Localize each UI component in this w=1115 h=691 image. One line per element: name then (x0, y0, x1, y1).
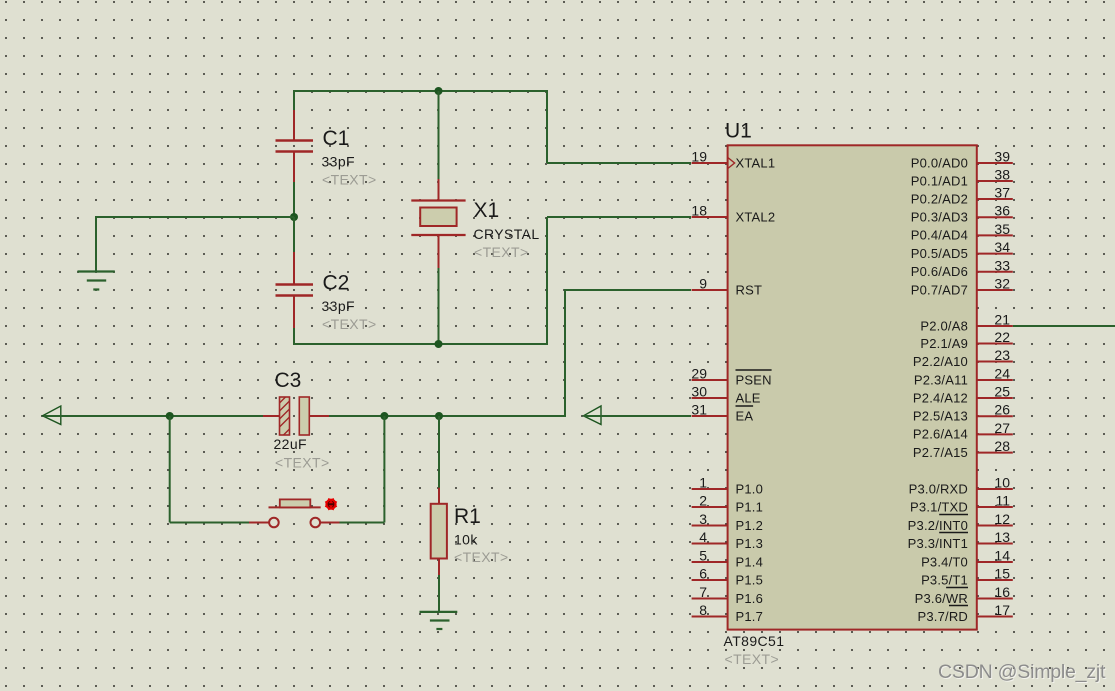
svg-text:P2.5/A13: P2.5/A13 (913, 409, 968, 424)
svg-text:P1.4: P1.4 (736, 554, 764, 569)
capacitor C3 (electrolytic) (263, 397, 330, 435)
svg-text:P0.3/AD3: P0.3/AD3 (911, 210, 968, 225)
wire XTAL1 to U1 (547, 162, 691, 164)
U1 pin 30 (ALE) left stub (691, 384, 760, 406)
svg-text:33pF: 33pF (322, 298, 356, 314)
svg-text:P3.4/T0: P3.4/T0 (921, 554, 968, 569)
svg-text:P0.6/AD6: P0.6/AD6 (911, 264, 968, 279)
svg-text:P2.0/A8: P2.0/A8 (920, 318, 968, 333)
crystal X1 (411, 179, 465, 269)
svg-text:P0.7/AD7: P0.7/AD7 (911, 282, 968, 297)
svg-text:21: 21 (994, 312, 1010, 328)
svg-text:2: 2 (699, 493, 707, 509)
wire P2.0/A8 to right edge (1013, 325, 1115, 327)
junction node crystal bottom (435, 340, 443, 348)
svg-text:CSDN @Simple_zjt: CSDN @Simple_zjt (938, 661, 1106, 683)
U1 pin 26 (P2.5/A13) right stub (913, 402, 1013, 424)
svg-text:6: 6 (699, 566, 707, 582)
svg-text:33pF: 33pF (322, 154, 356, 170)
U1 pin 17 (P3.7/RD) right stub (917, 602, 1012, 624)
junction node crystal top (435, 87, 443, 95)
U1 pin 23 (P2.2/A10) right stub (913, 347, 1013, 369)
svg-text:P3.5/T1: P3.5/T1 (921, 572, 968, 587)
svg-text:RST: RST (736, 282, 763, 297)
junction node button right branch (380, 412, 388, 420)
wire RST vertical (564, 289, 566, 417)
svg-text:19: 19 (691, 149, 707, 165)
svg-text:<TEXT>: <TEXT> (322, 172, 377, 188)
svg-text:P3.3/INT1: P3.3/INT1 (908, 536, 968, 551)
wire C1 lower lead (293, 182, 295, 218)
terminal arrow left (main net) (43, 406, 61, 425)
svg-text:<TEXT>: <TEXT> (474, 244, 529, 260)
svg-text:XTAL2: XTAL2 (736, 209, 776, 224)
push button SW (249, 499, 341, 527)
svg-text:29: 29 (691, 366, 707, 382)
U1 pin 24 (P2.3/A11) right stub (914, 366, 1013, 388)
svg-text:U1: U1 (725, 120, 752, 143)
wire R1 lower lead (438, 575, 440, 612)
svg-text:22uF: 22uF (274, 436, 308, 452)
svg-text:24: 24 (994, 366, 1010, 382)
svg-text:3: 3 (699, 511, 707, 527)
svg-text:P1.5: P1.5 (736, 572, 764, 587)
U1 pin 5 (P1.4) left stub (692, 548, 763, 570)
svg-text:37: 37 (994, 185, 1010, 201)
U1 pin 31 (EA) left stub (691, 402, 753, 424)
svg-text:EA: EA (736, 408, 754, 423)
U1 pin 34 (P0.5/AD5) right stub (911, 239, 1013, 261)
svg-text:C2: C2 (323, 272, 350, 295)
U1 pin 10 (P3.0/RXD) right stub (909, 475, 1013, 497)
svg-text:P1.6: P1.6 (736, 591, 764, 606)
svg-text:X1: X1 (474, 199, 500, 222)
U1 pin 27 (P2.6/A14) right stub (913, 420, 1013, 442)
terminal arrow EA (583, 406, 601, 425)
U1 pin 28 (P2.7/A15) right stub (913, 438, 1013, 460)
svg-text:32: 32 (994, 276, 1010, 292)
svg-text:P2.3/A11: P2.3/A11 (914, 372, 968, 387)
svg-text:1: 1 (699, 475, 707, 491)
U1 pin 25 (P2.4/A12) right stub (913, 384, 1013, 406)
U1 pin 36 (P0.3/AD3) right stub (911, 203, 1013, 225)
svg-text:P0.4/AD4: P0.4/AD4 (911, 228, 968, 243)
U1 pin 35 (P0.4/AD4) right stub (911, 221, 1013, 243)
wire X1 upper lead (438, 91, 440, 180)
svg-text:27: 27 (994, 420, 1010, 436)
wire C2 upper lead (293, 217, 295, 253)
svg-text:P2.1/A9: P2.1/A9 (920, 336, 968, 351)
watermark (938, 661, 1107, 684)
svg-text:34: 34 (994, 239, 1010, 255)
svg-text:9: 9 (699, 276, 707, 292)
U1 pin 38 (P0.1/AD1) right stub (911, 167, 1013, 189)
U1 pin 14 (P3.4/T0) right stub (921, 548, 1013, 570)
U1 pin 18 (XTAL2) left stub (691, 203, 775, 225)
junction node C1/C2/ground (290, 213, 298, 221)
U1 pin 6 (P1.5) left stub (692, 566, 763, 588)
svg-text:14: 14 (994, 548, 1010, 564)
svg-text:12: 12 (994, 511, 1010, 527)
svg-text:<TEXT>: <TEXT> (454, 549, 509, 565)
svg-text:10: 10 (994, 475, 1010, 491)
U1 pin 1 (P1.0) left stub (692, 475, 763, 497)
wire button branch left vertical (169, 416, 171, 523)
svg-text:P1.1: P1.1 (736, 499, 764, 514)
wire oscillator right vertical lower (546, 217, 548, 345)
svg-text:7: 7 (699, 584, 707, 600)
ground symbol under R1 (420, 612, 458, 629)
svg-text:8: 8 (699, 602, 707, 618)
wire C1 upper lead (293, 91, 295, 112)
U1 pin 29 (PSEN) left stub (691, 366, 771, 388)
wire R1 upper lead (438, 416, 440, 489)
svg-text:PSEN: PSEN (736, 372, 772, 387)
wire XTAL2 to U1 (547, 216, 691, 218)
svg-text:36: 36 (994, 203, 1010, 219)
svg-text:P1.0: P1.0 (736, 481, 764, 496)
U1 pin 8 (P1.7) left stub (692, 602, 763, 624)
svg-text:10k: 10k (454, 532, 478, 548)
button interactive actuator (red) (325, 498, 337, 510)
U1 pin 4 (P1.3) left stub (692, 529, 763, 551)
wire button branch right horizontal (340, 522, 385, 524)
svg-text:16: 16 (994, 584, 1010, 600)
svg-text:5: 5 (699, 548, 707, 564)
clock input marker XTAL1 (728, 158, 735, 169)
U1 pin 19 (XTAL1) left stub (691, 149, 775, 171)
U1 pin 11 (P3.1/TXD) right stub (910, 493, 1013, 515)
svg-text:28: 28 (994, 438, 1010, 454)
svg-text:C3: C3 (275, 369, 302, 392)
svg-text:22: 22 (994, 329, 1010, 345)
svg-text:30: 30 (691, 384, 707, 400)
U1 pin 39 (P0.0/AD0) right stub (911, 149, 1013, 171)
U1 pin 21 (P2.0/A8) right stub (920, 312, 1012, 334)
wire button branch right vertical (383, 416, 385, 523)
svg-text:<TEXT>: <TEXT> (322, 316, 377, 332)
svg-text:AT89C51: AT89C51 (724, 633, 785, 649)
U1 pin 12 (P3.2/INT0) right stub (908, 511, 1013, 533)
svg-text:P0.5/AD5: P0.5/AD5 (911, 246, 968, 261)
svg-text:31: 31 (691, 402, 707, 418)
svg-text:11: 11 (995, 493, 1010, 509)
svg-text:39: 39 (994, 149, 1010, 165)
wire main reset net right segment (329, 415, 565, 417)
resistor R1 (431, 488, 447, 576)
wire oscillator right vertical upper (546, 90, 548, 163)
capacitor C2 (276, 252, 314, 328)
svg-text:XTAL1: XTAL1 (736, 155, 776, 170)
wire junction to ground left (95, 216, 294, 218)
capacitor C1 (276, 110, 314, 182)
svg-text:P2.6/A14: P2.6/A14 (913, 427, 968, 442)
svg-text:R1: R1 (454, 505, 481, 528)
svg-text:P1.2: P1.2 (736, 518, 764, 533)
svg-text:P2.2/A10: P2.2/A10 (913, 354, 968, 369)
svg-text:P1.7: P1.7 (736, 609, 764, 624)
svg-text:35: 35 (994, 221, 1010, 237)
svg-text:P3.1/TXD: P3.1/TXD (910, 499, 968, 514)
svg-text:P0.2/AD2: P0.2/AD2 (911, 191, 968, 206)
U1 pin 16 (P3.6/WR) right stub (915, 584, 1013, 606)
svg-text:P0.0/AD0: P0.0/AD0 (911, 155, 968, 170)
svg-text:P3.2/INT0: P3.2/INT0 (908, 518, 968, 533)
U1 pin 33 (P0.6/AD6) right stub (911, 257, 1013, 279)
U1 pin 2 (P1.1) left stub (692, 493, 763, 515)
svg-text:23: 23 (994, 347, 1010, 363)
wire RST horizontal (565, 289, 691, 291)
svg-text:15: 15 (994, 566, 1010, 582)
U1 pin 7 (P1.6) left stub (692, 584, 763, 606)
svg-text:P2.4/A12: P2.4/A12 (913, 390, 968, 405)
svg-text:P1.3: P1.3 (736, 536, 764, 551)
wire main reset net left segment (44, 415, 264, 417)
junction node R1 branch (435, 412, 443, 420)
svg-text:33: 33 (994, 257, 1010, 273)
U1 pin 13 (P3.3/INT1) right stub (908, 529, 1013, 551)
wire EA terminal to U1 (584, 415, 692, 417)
wire top oscillator horizontal (293, 90, 548, 92)
svg-text:25: 25 (994, 384, 1010, 400)
svg-text:CRYSTAL: CRYSTAL (474, 226, 540, 242)
U1 pin 37 (P0.2/AD2) right stub (911, 185, 1013, 207)
wire bottom oscillator horizontal (293, 343, 548, 345)
U1 pin 22 (P2.1/A9) right stub (920, 329, 1012, 351)
wire X1 lower lead (438, 268, 440, 344)
svg-text:P0.1/AD1: P0.1/AD1 (911, 173, 968, 188)
junction node button left branch (166, 412, 174, 420)
svg-text:4: 4 (699, 529, 707, 545)
svg-text:P3.6/WR: P3.6/WR (915, 591, 968, 606)
IC U1 AT89C51 body (728, 145, 977, 629)
svg-text:<TEXT>: <TEXT> (725, 651, 780, 667)
U1 pin 32 (P0.7/AD7) right stub (911, 276, 1013, 298)
ground symbol left (78, 217, 115, 290)
svg-text:18: 18 (691, 203, 707, 219)
svg-text:C1: C1 (323, 127, 350, 150)
U1 pin 15 (P3.5/T1) right stub (921, 566, 1013, 588)
svg-text:P2.7/A15: P2.7/A15 (913, 445, 968, 460)
svg-text:<TEXT>: <TEXT> (275, 455, 330, 471)
svg-text:17: 17 (994, 602, 1010, 618)
svg-text:P3.0/RXD: P3.0/RXD (909, 481, 968, 496)
wire C2 lower lead (293, 328, 295, 345)
svg-text:13: 13 (994, 529, 1010, 545)
U1 pin 3 (P1.2) left stub (692, 511, 763, 533)
wire button branch left horizontal (170, 522, 250, 524)
svg-text:38: 38 (994, 167, 1010, 183)
svg-text:P3.7/RD: P3.7/RD (917, 609, 968, 624)
svg-text:26: 26 (994, 402, 1010, 418)
svg-text:ALE: ALE (736, 390, 761, 405)
U1 pin 9 (RST) left stub (692, 276, 763, 298)
